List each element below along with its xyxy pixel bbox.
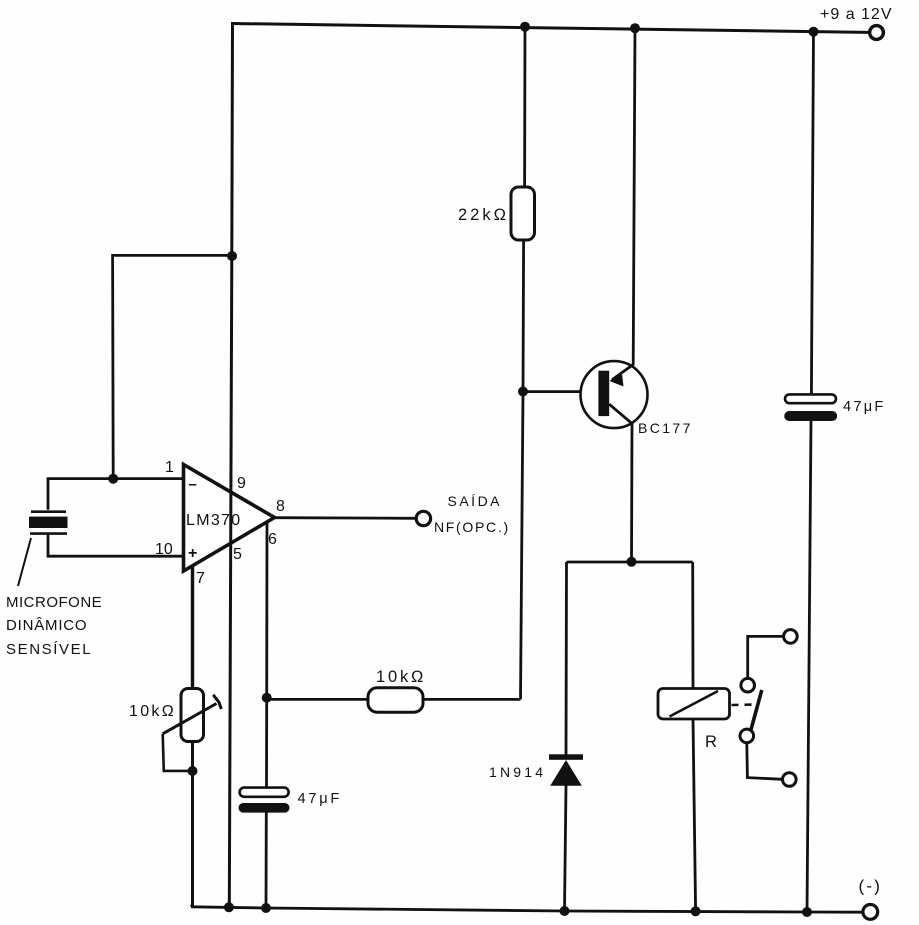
wire: bottom rail — [191, 907, 863, 912]
output terminal SAIDA — [416, 511, 430, 525]
wire: diode branch upper — [565, 562, 568, 755]
svg-text:R: R — [705, 733, 717, 751]
svg-text:6: 6 — [268, 531, 277, 548]
wire: non-inverting input (pin 10) — [48, 535, 184, 556]
diode D1 1N914 — [549, 754, 583, 785]
wire: 22k / base line — [523, 27, 526, 188]
svg-text:10kΩ: 10kΩ — [376, 668, 426, 686]
node: top rail junction at right cap — [809, 27, 819, 37]
svg-text:–: – — [189, 476, 197, 493]
switch contact terminal (top) — [784, 630, 798, 644]
wire: diode to bottom rail — [565, 786, 567, 912]
switch arm — [751, 690, 762, 730]
wire: inverting input (pin 1) — [48, 479, 184, 510]
node: top rail junction at emitter — [630, 23, 640, 33]
svg-text:(-): (-) — [859, 877, 883, 896]
wire: mic loop upper — [113, 255, 232, 478]
wire: base wire to transistor — [523, 390, 599, 393]
svg-text:1N914: 1N914 — [489, 764, 546, 780]
microphone — [29, 512, 68, 534]
resistor 10kΩ horizontal — [267, 688, 521, 712]
svg-text:NF(OPC.): NF(OPC.) — [434, 519, 510, 535]
potentiometer 10kΩ — [163, 689, 222, 771]
svg-text:47μF: 47μF — [298, 791, 343, 807]
node: junction at inverting input wire — [108, 474, 118, 484]
switch terminal (bottom) — [783, 773, 797, 787]
wire: relay branch upper — [691, 562, 694, 689]
node: top rail junction at 22k — [520, 22, 530, 32]
wire: dashed actuation link — [732, 703, 758, 706]
svg-text:BC177: BC177 — [638, 420, 693, 436]
svg-text:7: 7 — [196, 570, 205, 587]
wire: top supply rail — [233, 24, 877, 33]
wire: right cap to bottom rail — [807, 421, 811, 912]
svg-text:8: 8 — [276, 498, 285, 515]
power terminal +9a12V — [870, 26, 884, 40]
wire: pot bottom to bottom rail — [191, 742, 193, 907]
wire: horizontal between diode and relay branches — [567, 561, 693, 564]
svg-text:5: 5 — [233, 546, 242, 563]
switch fixed contact — [741, 678, 755, 692]
svg-text:MICROFONE: MICROFONE — [6, 594, 102, 611]
svg-text:LM370: LM370 — [186, 512, 241, 529]
wire: pin 6 line down to cap — [265, 522, 268, 788]
svg-text:22kΩ: 22kΩ — [458, 206, 509, 224]
wire: cap bottom to rail — [265, 812, 268, 908]
wire: left supply line (through op-amp pins 9/5) — [229, 22, 232, 907]
svg-text:+9 a 12V: +9 a 12V — [820, 6, 893, 23]
svg-text:10: 10 — [155, 541, 173, 558]
svg-text:10kΩ: 10kΩ — [129, 703, 176, 720]
svg-text:SENSÍVEL: SENSÍVEL — [6, 641, 92, 658]
wire: output pin 8 — [275, 516, 417, 519]
wire: relay to bottom rail — [693, 719, 696, 911]
transistor Q1 BC177 — [581, 28, 648, 562]
node: junction left rail to mic loop — [227, 251, 237, 261]
capacitor 47uF (left) — [239, 788, 290, 813]
wire: mic leader line — [18, 538, 31, 586]
svg-text:47μF: 47μF — [843, 399, 886, 415]
svg-text:9: 9 — [237, 475, 246, 492]
node: base junction — [518, 387, 528, 397]
wire: right cap branch from rail — [811, 32, 813, 395]
svg-text:SAÍDA: SAÍDA — [448, 493, 503, 509]
node: collector junction — [627, 557, 637, 567]
node: pot wiper junction — [188, 766, 198, 776]
wire: pole to bottom terminal — [747, 743, 783, 780]
node: bottom rail junctions — [224, 902, 234, 912]
node: pin6 / feedback junction — [262, 693, 272, 703]
svg-text:DINÂMICO: DINÂMICO — [6, 617, 87, 634]
switch pole contact — [740, 729, 754, 743]
ground terminal (-) — [863, 905, 878, 920]
relay R coil — [658, 689, 730, 720]
svg-text:1: 1 — [165, 459, 174, 476]
wire: pin 7 down — [191, 566, 194, 689]
capacitor 47uF (right) — [784, 394, 837, 421]
wire: top terminal to fixed contact — [748, 636, 784, 678]
op-amp U1 LM370 — [184, 465, 275, 572]
svg-text:+: + — [188, 545, 197, 562]
resistor 22kΩ — [511, 187, 535, 240]
